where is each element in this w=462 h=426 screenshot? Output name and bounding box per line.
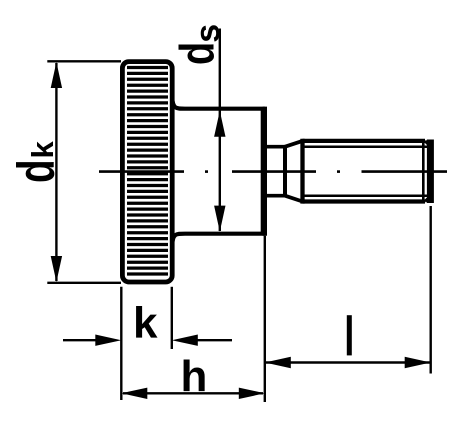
svg-text:h: h <box>181 352 208 401</box>
svg-text:d: d <box>7 159 65 183</box>
svg-text:k: k <box>25 141 60 159</box>
svg-text:s: s <box>189 24 227 43</box>
svg-text:k: k <box>133 299 158 348</box>
svg-text:d: d <box>171 42 224 65</box>
